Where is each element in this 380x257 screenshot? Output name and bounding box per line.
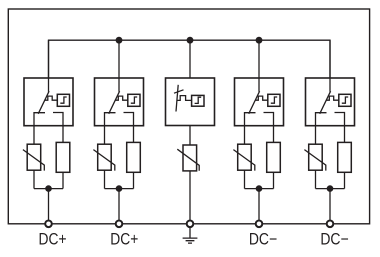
disconnect device box F3 (earth path) <box>166 78 215 126</box>
junction node, branch 1 <box>45 185 52 192</box>
wire: varistor RV3 to earth terminal <box>189 171 191 224</box>
varistor RV2 body <box>98 144 112 170</box>
left contact of disconnect F5 <box>316 113 327 145</box>
remote signalling contact square of F3 <box>192 95 204 106</box>
switch blade of disconnect F4 <box>249 91 260 114</box>
thermal disconnect device box F2 <box>95 78 144 126</box>
wire: bottom joining conductor, branch 2 <box>105 188 134 190</box>
junction node, branch 5 <box>327 185 334 192</box>
wire: tail to terminal, branch 4 <box>258 189 260 224</box>
signal linkage (pulse line) of F3 <box>177 96 192 101</box>
remote signalling contact square of F1 <box>57 94 69 106</box>
right contact of disconnect F5 <box>335 113 345 143</box>
wire: series element leg down, branch 2 <box>133 172 135 188</box>
wire: series element leg down, branch 4 <box>273 172 275 188</box>
wire: varistor leg down, branch 2 <box>104 170 106 188</box>
signal linkage (pulse line) of disconnect F2 <box>115 96 128 100</box>
wire: tail to terminal, branch 2 <box>118 189 120 224</box>
wire: bus drop to disconnect box 3 (earth path) <box>189 40 191 78</box>
series protection element (rectangle) E4 <box>267 142 281 172</box>
DC- terminal 5 (open circle) <box>327 221 334 228</box>
varistor RV5 diagonal stroke <box>304 150 325 171</box>
DC- terminal 4 (open circle) <box>256 221 263 228</box>
svg-text:DC−: DC− <box>320 231 348 249</box>
varistor RV5 body <box>309 144 323 170</box>
wire: varistor leg down, branch 5 <box>315 170 317 188</box>
wire: bus drop to disconnect box 2 <box>118 40 120 92</box>
svg-text:DC+: DC+ <box>39 231 67 249</box>
step-function symbol inside signalling square of F3 <box>195 97 202 103</box>
varistor RV3 diagonal stroke <box>177 149 199 171</box>
isolating blade of F3 <box>176 85 178 112</box>
signal linkage (pulse line) of disconnect F1 <box>45 96 58 100</box>
varistor RV4 body <box>238 144 252 170</box>
wire: box F3 to varistor RV3 <box>189 126 191 146</box>
varistor RV2 diagonal stroke <box>93 150 114 171</box>
thermal disconnect device box F1 <box>24 78 73 126</box>
wire: bottom joining conductor, branch 4 <box>245 188 274 190</box>
wire: bus drop to disconnect box 5 <box>329 40 331 92</box>
left contact of disconnect F2 <box>105 113 116 145</box>
switch blade of disconnect F2 <box>109 91 120 114</box>
varistor RV1 diagonal stroke <box>23 150 44 171</box>
wire: bottom joining conductor, branch 5 <box>316 188 345 190</box>
right contact of disconnect F1 <box>53 113 63 143</box>
series protection element (rectangle) E5 <box>338 142 352 172</box>
junction node, branch 4 <box>256 185 263 192</box>
junction node, branch 2 <box>116 185 123 192</box>
wire: tail to terminal, branch 1 <box>48 189 50 224</box>
remote signalling contact square of F2 <box>128 94 140 106</box>
wire: top bus conductor <box>49 40 331 78</box>
switch blade of disconnect F1 <box>38 91 49 114</box>
switch blade of disconnect F5 <box>320 91 331 114</box>
wire: varistor leg down, branch 1 <box>33 170 35 188</box>
wire: bottom joining conductor, branch 1 <box>34 188 63 190</box>
right contact of disconnect F4 <box>264 113 274 143</box>
right contact of disconnect F2 <box>124 113 134 143</box>
ground symbol at earth terminal <box>189 227 191 238</box>
step-function symbol inside signalling square of F1 <box>60 97 66 103</box>
remote signalling contact square of F4 <box>268 94 280 106</box>
earth terminal (open circle) <box>187 221 194 228</box>
signal linkage (pulse line) of disconnect F5 <box>326 96 339 100</box>
wire: series element leg down, branch 5 <box>344 172 346 188</box>
svg-text:DC+: DC+ <box>110 231 138 249</box>
thermal disconnect device box F5 <box>306 78 355 126</box>
series protection element (rectangle) E2 <box>127 142 141 172</box>
left contact of disconnect F4 <box>245 113 256 145</box>
step-function symbol inside signalling square of F4 <box>271 97 277 103</box>
step-function symbol inside signalling square of F5 <box>342 97 348 103</box>
DC+ terminal 2 (open circle) <box>116 221 123 228</box>
wire: series element leg down, branch 1 <box>62 172 64 188</box>
varistor RV1 body <box>27 144 41 170</box>
left contact of disconnect F1 <box>34 113 45 145</box>
wire: bus drop to disconnect box 1 <box>48 40 50 92</box>
junction node on bus, branch 4 <box>256 37 263 44</box>
wire: bus drop to disconnect box 4 <box>258 40 260 92</box>
wire: tail to terminal, branch 5 <box>329 189 331 224</box>
junction node on bus, branch 3 <box>187 37 194 44</box>
junction node on bus, branch 2 <box>116 37 123 44</box>
thermal disconnect device box F4 <box>235 78 284 126</box>
varistor RV4 diagonal stroke <box>233 150 254 171</box>
DC+ terminal 1 (open circle) <box>45 221 52 228</box>
device outline (enclosure border) <box>8 9 369 224</box>
series protection element (rectangle) E1 <box>56 142 70 172</box>
remote signalling contact square of F5 <box>339 94 351 106</box>
wire: varistor leg down, branch 4 <box>244 170 246 188</box>
svg-text:DC−: DC− <box>249 231 277 249</box>
step-function symbol inside signalling square of F2 <box>131 97 137 103</box>
signal linkage (pulse line) of disconnect F4 <box>255 96 268 100</box>
varistor RV3 body <box>183 145 197 171</box>
isolator tick of F3 <box>174 90 184 93</box>
